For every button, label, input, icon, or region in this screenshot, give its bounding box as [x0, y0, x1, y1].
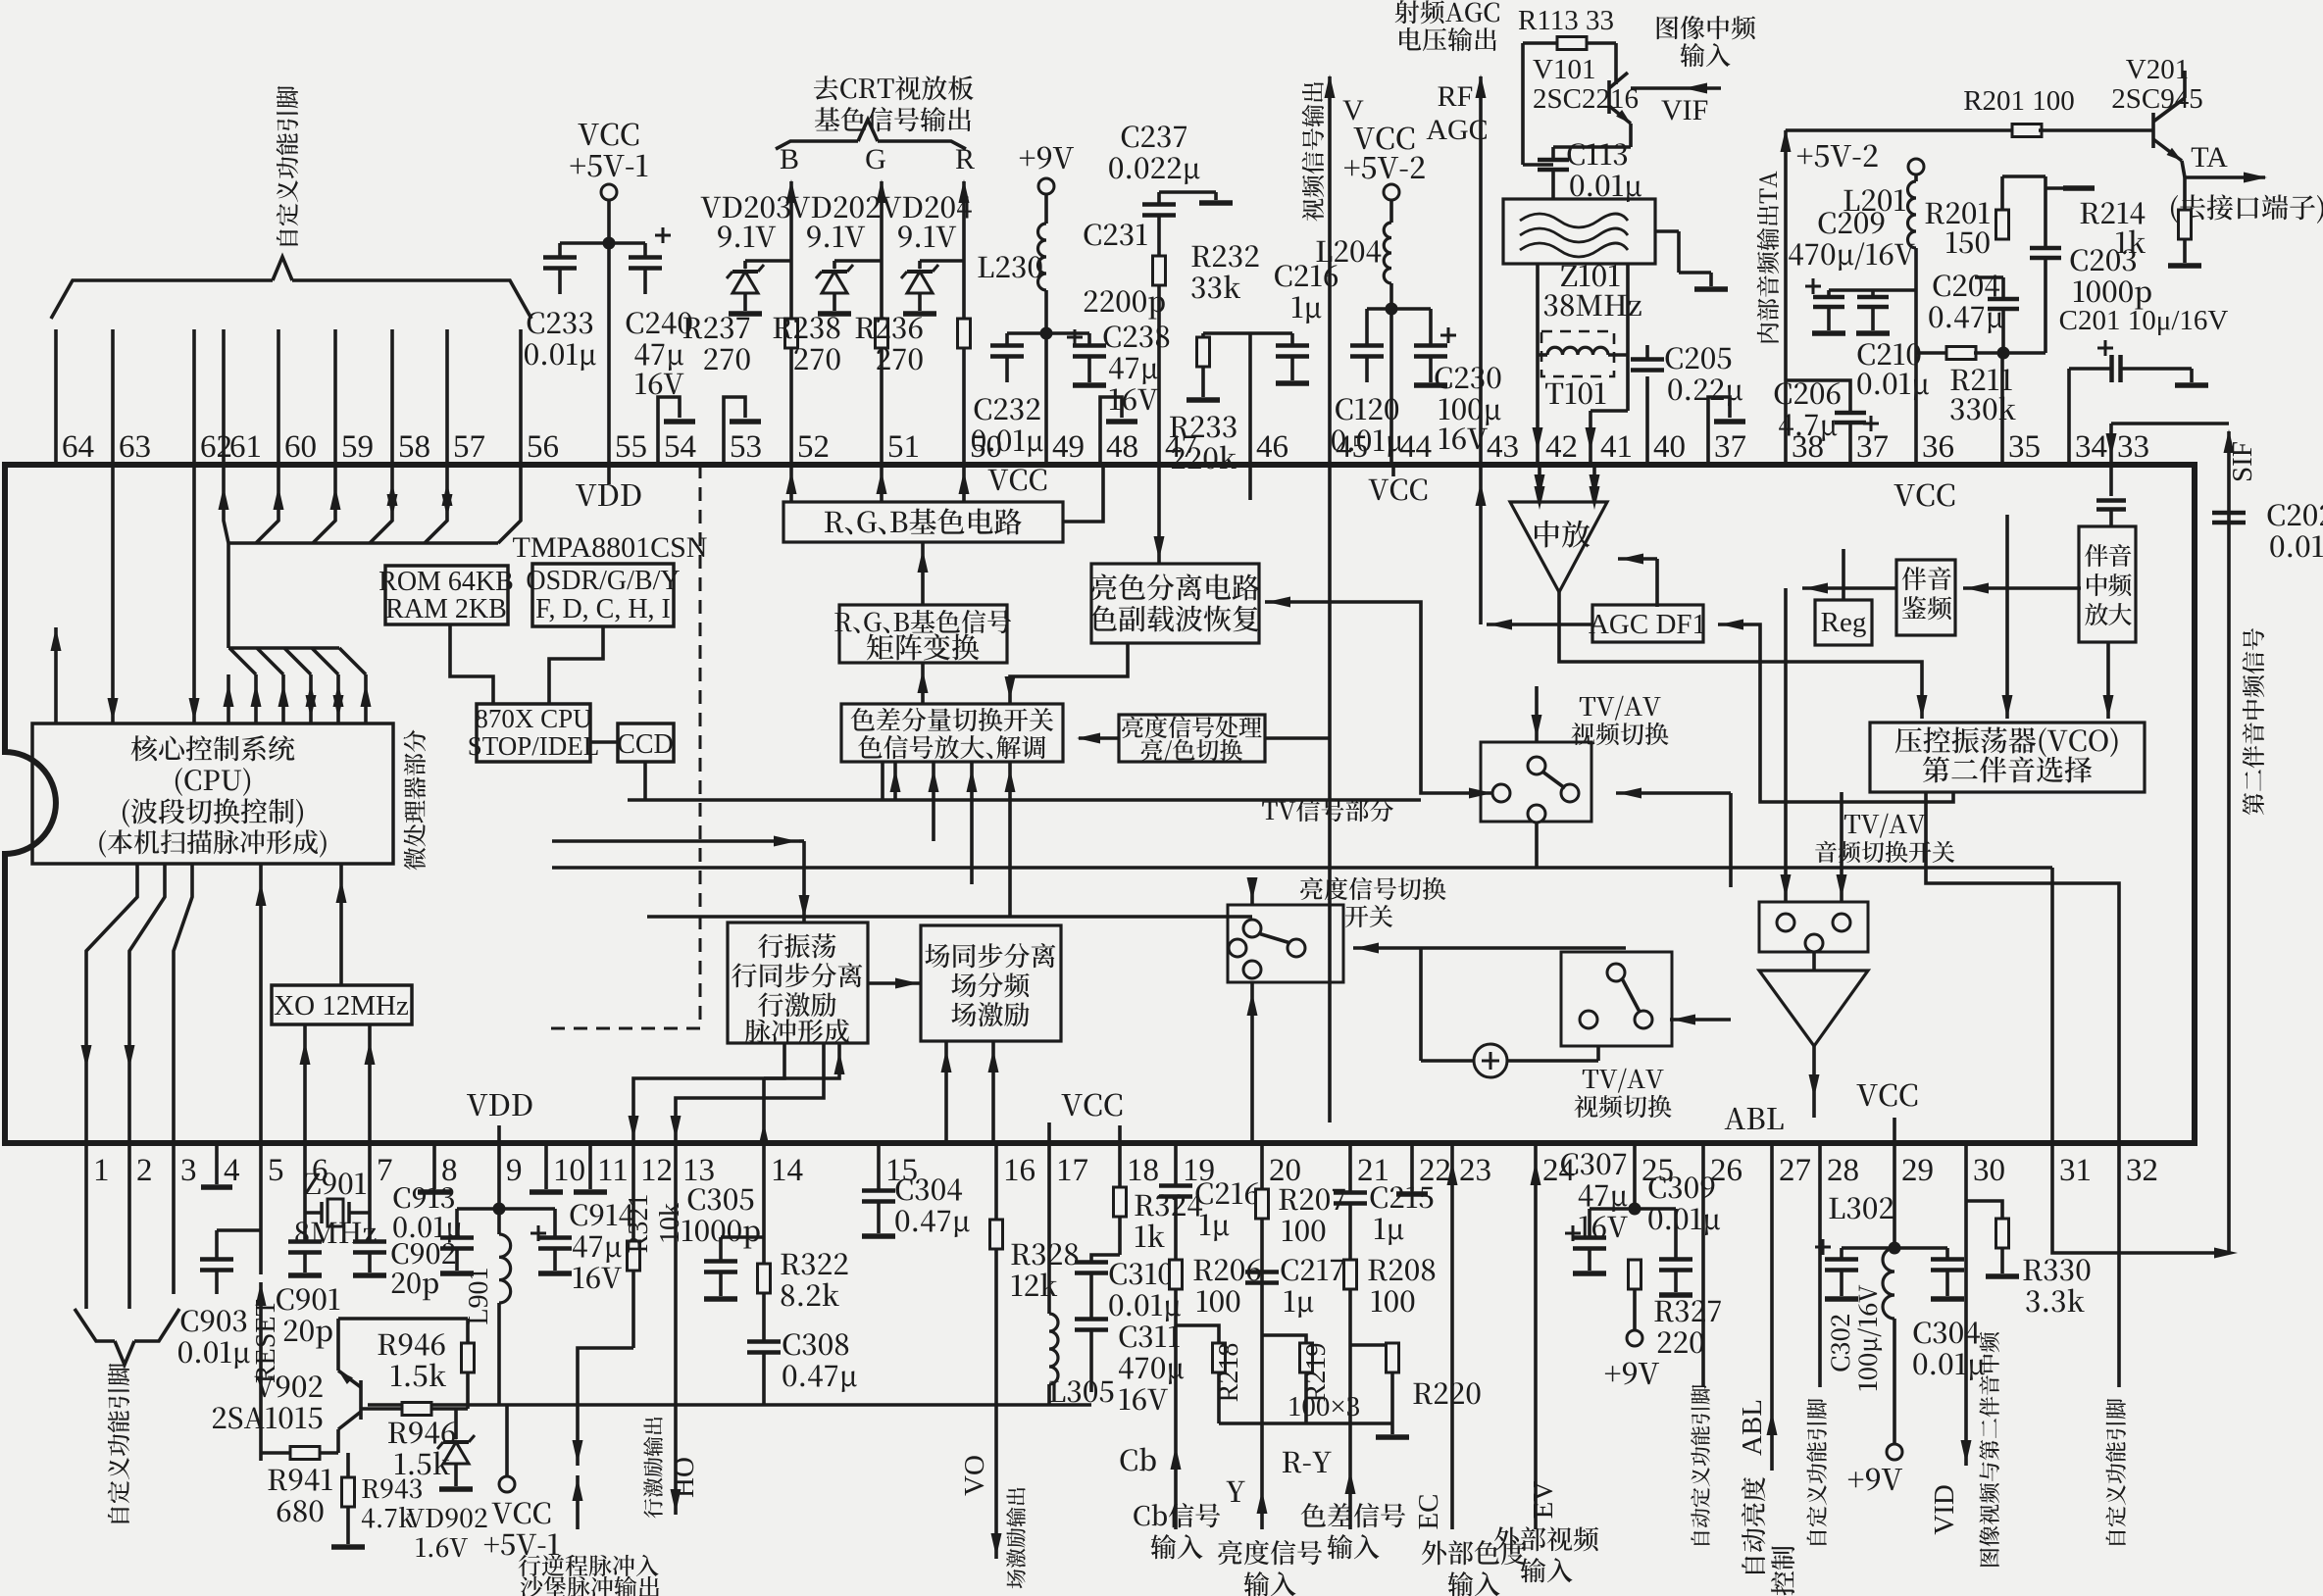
video output line (pin45): [1302, 75, 1365, 465]
node B: [780, 143, 799, 175]
wire CCD down to bus: [643, 762, 647, 800]
svg-text:37: 37: [1714, 429, 1746, 465]
wire L901 bottom to VCC rail: [497, 1303, 501, 1405]
ground under R220: [1376, 1423, 1409, 1437]
wire pin12 sandcastle path: [573, 1348, 634, 1529]
block 压控振荡器(VCO)第二伴音选择: [1870, 723, 2145, 792]
R946 upper body: [379, 1319, 475, 1409]
svg-text:F, D, C, H, I: F, D, C, H, I: [535, 594, 671, 624]
zener VD204: [882, 196, 972, 314]
R-Y input: [1283, 1452, 1405, 1560]
resistor R232: [1153, 245, 1259, 465]
arrow into upper switch right: [1616, 788, 1731, 888]
svg-text:16: 16: [1003, 1153, 1035, 1188]
SAW filter Z101 box: [1503, 199, 1655, 264]
dashed partition line: [543, 465, 700, 1028]
label VCC (pin44 col head): [0, 0, 1, 1]
wire XO to CPU: [336, 864, 347, 985]
block 亮色分离电路色副载波恢复: [1090, 564, 1260, 643]
resistor R201 100: [1963, 85, 2153, 137]
wire pin46: [1248, 333, 1252, 465]
label VCC mid right: [1894, 484, 1955, 507]
transistor V101 2SC2216: [1533, 43, 1639, 147]
svg-text:51: 51: [887, 429, 920, 465]
svg-text:33: 33: [2117, 429, 2149, 465]
wire up into 亮度 switch bottom: [1247, 982, 1258, 1143]
svg-text:L901: L901: [464, 1267, 494, 1324]
svg-text:870X CPU: 870X CPU: [475, 704, 591, 733]
resistor R211 330k: [1916, 347, 2045, 421]
wire 870X CPU to CCD: [590, 740, 618, 744]
arrow into lower switch right: [1670, 1015, 1731, 1025]
pin54 ground stub: [658, 397, 695, 465]
wire 中放 apex to VCO: [1559, 592, 1928, 719]
block 核心控制系统 (CPU): [32, 723, 393, 864]
inductor L305 (pin17): [1049, 1143, 1113, 1405]
EC input line pin23: [1413, 1143, 1526, 1596]
TA rail wire: [1786, 128, 2015, 132]
svg-text:11: 11: [597, 1153, 629, 1188]
svg-text:38: 38: [1792, 429, 1824, 465]
block CCD: [617, 723, 674, 762]
output TA arrow: [2185, 141, 2267, 183]
inductor L201: [1843, 175, 1916, 264]
svg-text:R201 100: R201 100: [1963, 85, 2075, 117]
wire Reg up: [1842, 549, 1845, 600]
svg-text:49: 49: [1052, 429, 1085, 465]
label VCC near pin48 inside: [988, 469, 1047, 490]
svg-text:TMPA8801CSN: TMPA8801CSN: [513, 531, 708, 564]
svg-text:AGC: AGC: [1426, 114, 1488, 146]
wire R946 top elbow: [0, 0, 1, 1]
svg-text:1: 1: [93, 1153, 110, 1188]
bus line y858 CPU to 行振荡: [552, 836, 804, 847]
transistor V201 2SC945: [2111, 54, 2202, 177]
svg-text:EV: EV: [1528, 1481, 1559, 1520]
block XO 12MHz: [272, 985, 412, 1024]
svg-text:C201 10μ/16V: C201 10μ/16V: [2059, 305, 2229, 336]
label Z101 38MHz: [1544, 265, 1641, 316]
pin10 ground stub: [530, 1143, 563, 1192]
svg-text:R113 33: R113 33: [1518, 5, 1614, 36]
inductor L230 C231 2200p: [978, 194, 1164, 465]
svg-text:B: B: [780, 143, 799, 175]
svg-text:35: 35: [2008, 429, 2041, 465]
block AGC DF1: [1589, 605, 1706, 642]
pin32 line: [2105, 1143, 2126, 1545]
capacitor C232: [972, 333, 1046, 457]
wire pin29 node: [1829, 1143, 1900, 1255]
arrow down pin62 wire: [189, 465, 200, 723]
svg-text:STOP/IDEL: STOP/IDEL: [468, 731, 600, 761]
capacitor C230 electrolytic: [1391, 309, 1501, 449]
svg-text:3: 3: [180, 1153, 197, 1188]
label VDD (pin55 inside): [576, 465, 640, 506]
bus from pins 61-56: [219, 465, 522, 648]
svg-text:41: 41: [1600, 429, 1633, 465]
svg-text:5: 5: [268, 1153, 284, 1188]
svg-text:14: 14: [771, 1153, 803, 1188]
svg-text:43: 43: [1487, 429, 1519, 465]
svg-text:56: 56: [527, 429, 559, 465]
pin28 line: [1806, 1143, 1827, 1545]
node R: [955, 143, 975, 175]
wire pin9 node: [493, 1143, 506, 1216]
summing node +: [1474, 1044, 1507, 1077]
svg-text:R321: R321: [624, 1194, 654, 1254]
arrow down into upper switch: [1532, 686, 1542, 742]
wire pin52 into RGB block: [786, 465, 797, 502]
Y input: [1218, 1481, 1322, 1596]
arrow 亮度信号处理 to 色差分量: [1077, 733, 1119, 744]
wire pin50 into RGB block: [959, 465, 970, 502]
opamp triangle ABL: [1759, 952, 1868, 1046]
block Reg: [1815, 600, 1872, 645]
arrow into 伴音鉴频 right: [1963, 583, 2081, 594]
wire pin42 into 中放: [1535, 465, 1545, 502]
capacitor C305 1000p: [682, 1188, 764, 1299]
wire into upper switch left: [1421, 667, 1492, 799]
capacitor C238 electrolytic: [1046, 325, 1169, 410]
elbow RGB block to pin49: [1063, 465, 1103, 522]
svg-text:26: 26: [1710, 1153, 1742, 1188]
block OSDR/G/B/Y F,D,C,H,I: [526, 564, 680, 626]
arrow pin47 down into 亮色分离: [1154, 465, 1165, 564]
label TV/AV 视频切换 (upper): [1571, 696, 1668, 746]
SIF vertical line: [2224, 429, 2235, 1253]
capacitor C120: [1332, 309, 1403, 457]
resistor R946 upper 1.5k: [0, 0, 1, 1]
capacitor C216 (top): [1203, 265, 1338, 383]
capacitor C203 1000p: [2030, 188, 2151, 353]
capacitor C217: [1245, 1259, 1343, 1318]
wire opamp out to pin27 area: [1809, 1046, 1820, 1118]
capacitor C309: [1635, 1176, 1720, 1295]
pin37 ground stub (first): [1708, 397, 1745, 465]
svg-text:V: V: [1342, 94, 1364, 126]
bus line y816: [628, 798, 1421, 802]
resistor R943 4.7k: [0, 0, 1, 1]
svg-text:HO: HO: [669, 1457, 700, 1498]
Cb input: [1121, 1446, 1221, 1559]
capacitor C310: [1075, 1255, 1181, 1322]
label TV信号部分: [1262, 799, 1393, 822]
label 亮度信号切换开关: [1300, 877, 1445, 927]
block 行振荡行同步分离行激励脉冲形成: [728, 923, 868, 1043]
wire pin7 to XO: [365, 1024, 376, 1143]
RF AGC line (pin43): [1426, 75, 1488, 465]
capacitor C201 electrolytic 10u: [2059, 305, 2229, 465]
terminal +9V pin25: [1605, 1330, 1659, 1385]
svg-text:V201: V201: [2126, 54, 2189, 85]
capacitor C903 body: [178, 1230, 261, 1369]
block 伴音鉴频: [1896, 560, 1955, 635]
svg-text:4: 4: [224, 1153, 240, 1188]
svg-text:60: 60: [284, 429, 317, 465]
svg-text:10: 10: [553, 1153, 585, 1188]
wire 色差分量 bottom to bus: [881, 762, 884, 800]
capacitor C215 1u (pin21): [1334, 1143, 1433, 1257]
C216 pin19 body: [1159, 1143, 1259, 1247]
svg-text:9: 9: [506, 1153, 523, 1188]
ABL pin27 line: [1737, 1143, 1794, 1595]
wire SAW left to pin42: [1533, 264, 1543, 465]
wire VCO bottom to audio switch: [1837, 792, 1847, 902]
wire audio line down to switch: [1781, 588, 1792, 902]
wire OSD to 870X CPU: [549, 626, 603, 704]
R946 top rail: [338, 1317, 468, 1321]
capacitor C311 470u: [0, 0, 1, 1]
svg-text:24: 24: [1542, 1153, 1575, 1188]
svg-text:54: 54: [664, 429, 696, 465]
pin26 line: [1691, 1143, 1710, 1545]
svg-text:19: 19: [1183, 1153, 1215, 1188]
elbow 亮色分离 to 色差分量 top: [1005, 643, 1129, 704]
arrow down into 亮度 switch: [1247, 877, 1258, 905]
rail 100x3: [1219, 1391, 1392, 1423]
arrow up pin64 wire: [51, 627, 62, 723]
capacitor C205: [1631, 345, 1742, 465]
IC bottom pin numbers 1-32: [93, 1153, 2158, 1188]
label SIF: [2227, 441, 2258, 482]
wire pin41 into 中放: [1590, 465, 1600, 502]
VO line & R328: [959, 1143, 1078, 1588]
wire pin55 to VCC: [603, 200, 616, 465]
zener VD203: [701, 196, 791, 314]
label ABL inside: [1725, 1108, 1784, 1129]
stub fan into CPU top: [224, 648, 372, 723]
wire pin14 to 行振荡: [759, 1043, 845, 1146]
capacitor C210: [1856, 290, 1929, 400]
svg-text:36: 36: [1922, 429, 1954, 465]
wire pin12 to sandcastle: [0, 0, 1, 1]
terminal VCC +5V-1 (pin55): [571, 124, 648, 201]
switch TV/AV video upper: [1481, 742, 1591, 868]
wire SAW right to pin41: [1586, 264, 1629, 465]
svg-text:28: 28: [1827, 1153, 1859, 1188]
crystal Z901: [295, 1143, 376, 1243]
block ROM 64KB RAM 2KB: [379, 566, 514, 624]
svg-text:23: 23: [1459, 1153, 1491, 1188]
label TV/AV 音频切换开关: [1815, 814, 1954, 863]
block 色差分量切换开关色信号放大解调: [841, 704, 1063, 762]
resistor R322 8.2k (pin14): [758, 1143, 848, 1341]
svg-text:20: 20: [1269, 1153, 1301, 1188]
label 沙堡脉冲输出: [521, 1576, 659, 1596]
svg-text:R: R: [955, 143, 975, 175]
terminal +5V-2 (pin36): [1797, 145, 1924, 175]
IC top pin numbers 64-33: [62, 429, 2149, 465]
capacitor C206 4.7u (pin37): [1775, 380, 1879, 465]
resistor R207 100 (pin20): [1256, 1143, 1345, 1529]
wire summing to lower switch: [1421, 948, 1598, 1061]
label 自定义功能引脚 (top): [277, 86, 298, 246]
block 亮度信号处理亮色切换: [1119, 715, 1330, 763]
wire pin6 to XO: [300, 1024, 311, 1143]
resistor R941 680: [261, 1447, 338, 1522]
resistor R324 1k (pin18): [1114, 1143, 1203, 1255]
arrow 矩阵 to 基色电路: [918, 542, 929, 605]
svg-text:21: 21: [1357, 1153, 1389, 1188]
svg-text:RF: RF: [1438, 80, 1474, 113]
svg-text:44: 44: [1399, 429, 1432, 465]
brace pins 1-3 (user pins): [75, 1309, 179, 1365]
svg-text:42: 42: [1545, 429, 1578, 465]
capacitor C209 electrolytic: [1789, 212, 1916, 333]
svg-text:7: 7: [377, 1153, 393, 1188]
wires pins 1-3 down: [86, 1143, 174, 1309]
svg-text:32: 32: [2126, 1153, 2158, 1188]
svg-text:V101: V101: [1533, 54, 1595, 85]
HO output line pin13: [643, 1143, 700, 1518]
wire pin25 node: [1629, 1143, 1641, 1216]
svg-text:R218: R218: [1214, 1343, 1244, 1403]
wire 伴音中频放大 to VCO: [2103, 642, 2114, 719]
resistor R214 1k: [2081, 177, 2201, 266]
svg-text:ROM 64KB: ROM 64KB: [379, 567, 514, 597]
label 第二伴音中频信号: [2243, 628, 2265, 815]
svg-text:EC: EC: [1413, 1493, 1444, 1529]
arrow into 中放 right: [1618, 554, 1657, 608]
pin11 ground stub: [574, 1143, 607, 1192]
block R、G、B基色电路: [783, 502, 1063, 542]
svg-text:ABL: ABL: [1737, 1399, 1768, 1456]
brace over pins 64-56 (user-defined pins): [51, 257, 531, 319]
capacitor C204 0.47u: [1929, 274, 2019, 353]
ground T at C203 top: [2045, 186, 2095, 190]
svg-text:VO: VO: [959, 1455, 990, 1496]
inductor L901 body: [464, 1209, 511, 1325]
label VIF: [1661, 94, 1708, 126]
arrow 行振荡 feed head: [799, 895, 810, 919]
arrow 行振荡 to 场同步: [868, 978, 921, 989]
svg-text:62: 62: [200, 429, 232, 465]
svg-text:2SC945: 2SC945: [2111, 83, 2202, 115]
svg-text:2: 2: [136, 1153, 153, 1188]
capacitor C304b: [1894, 1248, 1985, 1380]
wire VCO bottom to pin32 inside: [1926, 792, 2119, 1143]
IF amp 中放 triangle: [1510, 502, 1607, 592]
block 伴音中频放大: [2079, 526, 2136, 642]
arrow down pin63 wire: [108, 465, 119, 723]
label VCC bottom middle inside: [1062, 1094, 1123, 1144]
svg-text:64: 64: [62, 429, 94, 465]
zener VD902 1.6V: [0, 0, 1, 1]
capacitor C216 (pin19): [0, 0, 1, 1]
wire AGC DF1 output left: [1487, 620, 1592, 630]
zener VD202: [790, 196, 882, 314]
pin31 line to SIF: [2052, 1143, 2238, 1259]
resistor R208 100: [1344, 1257, 1436, 1529]
resistor R201 150 (pin35): [1926, 202, 2009, 465]
arrow 色差分量 to 矩阵: [918, 663, 929, 704]
wire pin17 inside: [1047, 1122, 1051, 1143]
switch 亮度信号切换: [1228, 905, 1343, 982]
svg-text:17: 17: [1056, 1153, 1088, 1188]
capacitor C202: [2212, 504, 2323, 563]
svg-text:VIF: VIF: [1661, 94, 1708, 126]
switch TV/AV audio: [1759, 902, 1868, 952]
R943 body: [331, 1453, 365, 1547]
C307 body: [1561, 1153, 1635, 1273]
block R.G.B基色信号矩阵变换: [834, 605, 1011, 663]
double arrows pins 42/41 top: [1535, 486, 1600, 510]
svg-text:53: 53: [730, 429, 762, 465]
svg-text:VID: VID: [1929, 1484, 1960, 1535]
wire VCO feedback to AGC: [1718, 620, 1953, 803]
wire pin46 inside stub: [1248, 465, 1252, 500]
wire pin33 to SIF line: [2106, 424, 2230, 465]
capacitor inside pin33: [2096, 465, 2126, 526]
wires 场同步 to pins 15/16: [941, 1041, 999, 1143]
wires pins 64-56 below brace: [56, 329, 521, 465]
resistor R330 3.3k: [1966, 1201, 2090, 1312]
svg-text:61: 61: [229, 429, 262, 465]
svg-text:59: 59: [341, 429, 374, 465]
label (去接口端子): [2171, 194, 2323, 224]
VD902 body: [406, 1409, 486, 1557]
capacitor C302 electrolytic: [1815, 1239, 1894, 1390]
svg-text:AGC DF1: AGC DF1: [1589, 609, 1706, 640]
svg-text:27: 27: [1779, 1153, 1811, 1188]
svg-text:18: 18: [1127, 1153, 1159, 1188]
svg-text:29: 29: [1901, 1153, 1934, 1188]
svg-text:63: 63: [119, 429, 151, 465]
label 微处理器部分: [404, 730, 426, 871]
capacitor C914 electrolytic: [499, 1204, 633, 1288]
svg-text:25: 25: [1641, 1153, 1674, 1188]
capacitor C308: [747, 1333, 857, 1405]
pin8 ground stub: [418, 1143, 451, 1192]
svg-text:22: 22: [1419, 1153, 1451, 1188]
capacitor C304 0.47u (pin15): [862, 1143, 970, 1237]
capacitor C113: [1523, 143, 1641, 202]
capacitor C902: [353, 1213, 455, 1300]
svg-text:2SC2216: 2SC2216: [1533, 83, 1639, 115]
terminal +9V (pin49): [1020, 147, 1074, 194]
pin53 ground stub: [724, 397, 761, 465]
label 自定义功能引脚 (bottom-left): [108, 1364, 129, 1523]
svg-text:58: 58: [398, 429, 430, 465]
svg-text:XO 12MHz: XO 12MHz: [274, 990, 409, 1022]
resistor R113 33: [1518, 5, 1616, 165]
capacitor C901: [277, 1213, 339, 1349]
label C913: [393, 1187, 462, 1243]
svg-text:RAM 2KB: RAM 2KB: [385, 594, 507, 624]
label TV/AV 视频切换 (lower): [1574, 1069, 1671, 1119]
capacitor C233: [525, 243, 609, 371]
label TMPA8801CSN: [513, 531, 708, 564]
capacitor C240 electrolytic: [609, 227, 692, 394]
terminal +9V pin29: [1848, 1444, 1902, 1491]
svg-text:40: 40: [1653, 429, 1686, 465]
capacitor C311 body: [1075, 1320, 1184, 1411]
left arrow into 亮色分离: [1265, 597, 1421, 668]
resistor R946 lower 1.5k: [361, 1403, 468, 1475]
svg-text:100×3: 100×3: [1288, 1391, 1360, 1422]
svg-text:TA: TA: [2191, 141, 2228, 174]
block 870X CPU STOP/IDEL: [468, 704, 600, 762]
capacitor C307 electrolytic: [0, 0, 1, 1]
svg-text:15: 15: [885, 1153, 918, 1188]
terminal VCC +5V-1 bottom: [484, 1405, 559, 1555]
resistor R218: [1176, 1325, 1244, 1423]
resistor R206 100: [1170, 1247, 1261, 1529]
svg-text:57: 57: [453, 429, 485, 465]
resistor R236: [856, 317, 971, 370]
resistor R327 220: [1629, 1260, 1721, 1353]
wire pin50 R column: [959, 179, 970, 465]
